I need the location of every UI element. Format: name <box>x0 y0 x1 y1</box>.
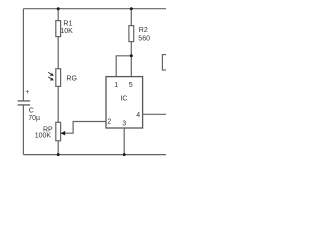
svg-text:C: C <box>29 107 34 114</box>
wire bottom rail <box>23 154 166 156</box>
resistor R2 <box>129 26 134 42</box>
svg-text:10K: 10K <box>60 28 73 35</box>
wiper arrowhead of RP <box>61 131 66 136</box>
svg-text:IC: IC <box>120 95 127 102</box>
wire pin1 branch <box>116 56 131 77</box>
wire pin 4 <box>143 113 166 115</box>
wire left rail upper <box>22 9 24 101</box>
node R1 top junction <box>57 7 60 10</box>
op-amp IC body <box>106 77 143 128</box>
wire pin 3 <box>123 128 125 155</box>
resistor R1 <box>56 21 61 37</box>
node RP bottom junction <box>57 153 60 156</box>
wire left rail lower <box>22 105 24 155</box>
svg-text:4: 4 <box>136 112 140 119</box>
resistor R3 (cut off at right edge) <box>162 55 170 70</box>
light arrows into RG <box>48 72 54 80</box>
wire R1 to RG <box>57 37 59 69</box>
svg-text:3: 3 <box>122 121 126 128</box>
svg-text:R1: R1 <box>63 21 72 28</box>
wire RG to RP <box>57 86 59 122</box>
svg-text:5: 5 <box>129 82 133 89</box>
svg-text:R2: R2 <box>139 27 148 34</box>
svg-text:100K: 100K <box>35 133 52 140</box>
wire pin 2 <box>61 122 106 134</box>
svg-text:2: 2 <box>107 119 111 126</box>
svg-text:70µ: 70µ <box>28 115 40 122</box>
potentiometer RP body <box>56 122 61 141</box>
wire R1 branch from top rail <box>57 9 59 21</box>
node pin1/pin5 junction <box>130 54 133 57</box>
photoresistor RG <box>56 69 61 87</box>
wire R2 to pin5 <box>130 42 132 77</box>
node pin3 bottom junction <box>123 153 126 156</box>
svg-text:1: 1 <box>114 82 118 89</box>
node R2 top junction <box>130 7 133 10</box>
wire R2 branch from top rail <box>130 9 132 26</box>
wire top rail <box>23 8 166 10</box>
capacitor C plates <box>18 101 31 105</box>
svg-text:560: 560 <box>138 36 150 43</box>
svg-text:+: + <box>25 89 29 96</box>
wire RP to bottom rail <box>57 141 59 155</box>
svg-text:RG: RG <box>66 75 77 82</box>
